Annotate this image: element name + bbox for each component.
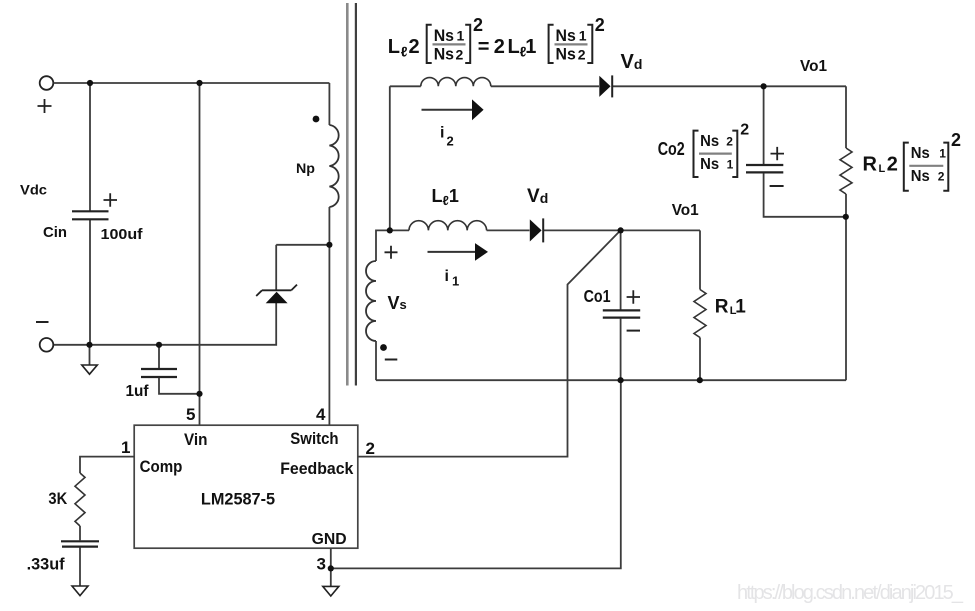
transformer primary Np coil [329, 125, 338, 207]
svg-text:2: 2 [578, 46, 586, 62]
svg-text:L: L [508, 36, 520, 58]
minus input marker [36, 321, 49, 323]
svg-text:2: 2 [366, 439, 375, 458]
wire secondary top link [376, 230, 390, 261]
svg-text:2: 2 [726, 134, 733, 148]
svg-text:2: 2 [595, 15, 605, 35]
ground pin3 [323, 586, 339, 596]
node rail-Vin [196, 80, 202, 86]
formula bracket left 2 [549, 25, 554, 63]
svg-text:R: R [863, 154, 878, 176]
wire comp pin 1 [80, 457, 134, 473]
svg-text:Ns: Ns [700, 156, 719, 173]
terminal - input [40, 338, 54, 352]
wire GND pin 3 [331, 380, 621, 568]
node switch-zener [326, 242, 332, 248]
svg-text:Comp: Comp [140, 457, 183, 476]
node RL1-rail [697, 377, 703, 383]
svg-text:i: i [445, 268, 449, 285]
resistor RL2 [840, 148, 852, 194]
label RL2 with fraction [863, 130, 962, 191]
svg-text:Ns: Ns [434, 45, 454, 64]
svg-text:2: 2 [951, 130, 961, 150]
formula bracket right 2 [587, 25, 592, 63]
node Co2-RL2 [843, 214, 849, 220]
ground .33uf [72, 586, 88, 596]
primary phase dot [313, 116, 320, 123]
svg-text:1: 1 [735, 297, 746, 318]
svg-text:4: 4 [316, 405, 326, 424]
wire feedback pin 2 [358, 230, 621, 456]
node 1uf-Vin [196, 391, 202, 397]
wire switch node to zener [276, 244, 329, 246]
secondary phase dot [380, 344, 387, 351]
svg-text:GND: GND [312, 531, 347, 548]
svg-text:Co2: Co2 [658, 139, 685, 159]
wire Cin drop [89, 84, 91, 211]
minus Vs marker [385, 359, 398, 361]
resistor RL1 [694, 290, 706, 338]
wire Cin bottom [89, 220, 91, 345]
plus input marker [38, 99, 52, 113]
plus Co1 marker [627, 290, 640, 303]
wire coil bottom to switch pin 4 [328, 207, 330, 425]
wire Ls1 lead [390, 229, 409, 231]
svg-text:R: R [715, 297, 729, 318]
wire ground stub input [89, 345, 91, 365]
Co2 bracket left [694, 131, 699, 177]
formula Ls2 equation [388, 15, 605, 64]
minus Co2 marker [770, 185, 784, 187]
resistor 3K [75, 473, 85, 526]
svg-text:Vo1: Vo1 [800, 58, 827, 75]
svg-text:Ns: Ns [434, 26, 454, 45]
svg-text:Vin: Vin [184, 430, 208, 449]
wire RL1 bottom lead [699, 338, 701, 381]
node secondary top [387, 227, 393, 233]
wire Co2 bottom to RL2 node [764, 173, 846, 217]
svg-text:1: 1 [939, 146, 946, 160]
wire Ls1 coil to diode1 [487, 229, 530, 231]
plus Co2 marker [771, 147, 785, 160]
svg-text:Switch: Switch [290, 429, 338, 448]
wire RL2 bottom lead [845, 194, 847, 217]
svg-text:2: 2 [740, 122, 749, 139]
capacitor 1uf [141, 369, 177, 377]
wire Co1 bottom [620, 318, 622, 380]
svg-text:Vdc: Vdc [20, 182, 47, 198]
svg-text:1: 1 [525, 36, 536, 58]
zener diode D1 [256, 285, 297, 304]
wire 1uf bottom to Vin line [159, 378, 200, 394]
svg-text:Lℓ1: Lℓ1 [432, 186, 459, 208]
svg-text:LM2587-5: LM2587-5 [201, 490, 275, 509]
capacitor Co2 [746, 165, 783, 172]
svg-text:2: 2 [409, 36, 420, 58]
arrow i2 [422, 99, 484, 120]
capacitor Cin [72, 211, 109, 219]
svg-text:L: L [879, 163, 886, 175]
arrow i1 [428, 243, 489, 261]
junction node dots primary [86, 80, 334, 572]
wire pin3 ground stem [330, 568, 332, 586]
Co2 bracket right [732, 131, 737, 177]
svg-text:2: 2 [473, 15, 483, 35]
svg-text:ℓ: ℓ [401, 44, 408, 60]
svg-text:Ns: Ns [700, 133, 719, 150]
wire top rail [54, 82, 330, 84]
svg-text:Np: Np [296, 160, 315, 176]
svg-text:Ns: Ns [911, 145, 930, 162]
RL2 bracket left [904, 143, 909, 191]
wire Ls2 coil to diode [491, 85, 599, 87]
node Vo1-2 [761, 83, 767, 89]
svg-text:3: 3 [317, 555, 326, 574]
wire Co1 vertical top [620, 230, 622, 309]
node Vo1-1 [618, 227, 624, 233]
RL2 bracket right [943, 143, 948, 191]
op-amp U1 LM2587-5 box [134, 425, 358, 548]
transformer core line left [346, 3, 349, 386]
wire Vin vertical [199, 84, 201, 425]
transformer core line right [355, 3, 357, 386]
svg-text:Ns: Ns [556, 26, 576, 45]
wire 3K to .33uf [79, 526, 81, 540]
capacitor .33uf [61, 541, 99, 546]
capacitor Co1 [603, 310, 640, 317]
wire .33uf to ground [79, 548, 81, 586]
svg-text:3K: 3K [48, 489, 67, 508]
ground input [82, 365, 98, 374]
svg-text:1uf: 1uf [126, 383, 150, 400]
inductor Ls1 coil [409, 221, 487, 231]
SECONDARY [366, 78, 852, 381]
svg-text:Cin: Cin [43, 224, 67, 241]
svg-text:2: 2 [447, 134, 454, 149]
wire primary top into coil [328, 83, 330, 125]
svg-text:1: 1 [452, 274, 459, 289]
wire diode1 to RL1 corner [544, 229, 701, 231]
node pin3 [328, 565, 334, 571]
svg-text:Ns: Ns [556, 45, 576, 64]
plus Cin marker [104, 193, 118, 206]
svg-text:Feedback: Feedback [280, 459, 354, 478]
svg-text:https://blog.csdn.net/dianji20: https://blog.csdn.net/dianji2015_ [737, 582, 964, 604]
formula bracket right 1 [465, 25, 470, 63]
wire Vs bottom [375, 341, 377, 380]
svg-text:Vs: Vs [388, 293, 407, 313]
svg-text:1: 1 [579, 28, 587, 44]
svg-text:=: = [478, 36, 490, 58]
wire RL1 top lead [699, 230, 701, 289]
minus Co1 marker [627, 330, 640, 332]
inductor Ls2 coil [421, 78, 491, 87]
svg-text:2: 2 [938, 170, 945, 184]
svg-text:100uf: 100uf [101, 226, 144, 243]
wire 1uf stub from rail [158, 345, 160, 368]
transformer secondary Vs coil [366, 261, 376, 341]
node gnd-input [86, 342, 92, 348]
svg-text:5: 5 [186, 405, 195, 424]
label Co2 with fraction [658, 122, 750, 178]
svg-text:Vd: Vd [621, 51, 643, 73]
wire RL2 top lead [845, 86, 847, 148]
plus Vs marker [385, 246, 398, 259]
svg-text:2: 2 [494, 36, 505, 58]
diode D2 Vd top [599, 75, 612, 97]
wire output ground rail [376, 379, 846, 381]
formula bracket left 1 [427, 25, 432, 63]
wire zener bottom lead [53, 303, 276, 345]
node Co1-rail [618, 377, 624, 383]
svg-text:Ns: Ns [911, 168, 930, 185]
wire zener top lead [275, 245, 277, 290]
svg-text:2: 2 [887, 154, 898, 176]
wire diode2 to Vo1 corner [613, 85, 846, 87]
junction node dots secondary [380, 83, 849, 383]
svg-text:L: L [388, 36, 400, 58]
diode D1 Vd [530, 218, 543, 242]
wire Co2 vertical top [763, 86, 765, 164]
node rail-Cin [87, 80, 93, 86]
svg-text:.33uf: .33uf [27, 556, 65, 574]
svg-text:i: i [440, 125, 444, 142]
svg-text:Vo1: Vo1 [672, 202, 699, 219]
svg-text:Vd: Vd [527, 186, 548, 207]
svg-text:1: 1 [457, 28, 465, 44]
wire RL2 node down to output rail [845, 217, 847, 380]
wire Ls2 top left [390, 85, 421, 87]
node rail-1uf [156, 342, 162, 348]
svg-text:1: 1 [727, 158, 734, 172]
svg-text:1: 1 [121, 438, 130, 457]
terminal + input [40, 76, 54, 90]
svg-text:Co1: Co1 [584, 286, 611, 306]
wire Ls2 loop left vertical [389, 86, 391, 230]
svg-text:2: 2 [456, 46, 464, 62]
